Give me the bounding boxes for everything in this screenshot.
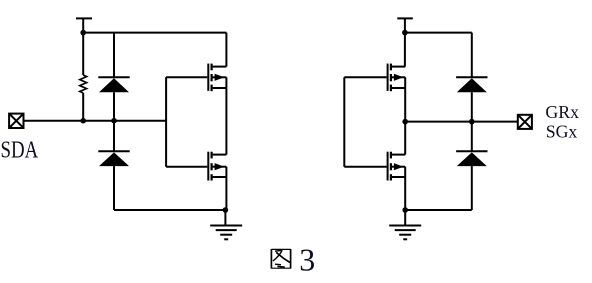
resistor R1 [80, 33, 87, 121]
wire rail to diode D3 [471, 33, 473, 78]
wire Q2 source to ground [225, 167, 227, 210]
junction dot node SDA [111, 118, 117, 124]
junction dot left top [80, 30, 86, 36]
svg-text:SGx: SGx [546, 122, 578, 142]
diode D4 [456, 151, 487, 210]
wire Q4 source to ground [404, 167, 406, 210]
pad SDA [9, 114, 23, 128]
wire rail to Q3 drain [404, 33, 406, 67]
power supply symbol left [76, 18, 92, 32]
wire top rail left [83, 32, 226, 34]
junction dot ground right [402, 207, 408, 213]
wire node row right [405, 121, 518, 123]
svg-text:SDA: SDA [1, 135, 39, 163]
transistor Q4 [388, 152, 406, 181]
junction dot ground left [223, 207, 229, 213]
wire node to diode D4 [471, 122, 473, 152]
svg-text:3: 3 [299, 241, 315, 277]
wire node SDA row [24, 120, 167, 122]
wire rail to diode D1 [113, 33, 115, 78]
junction dot resistor bottom [80, 118, 86, 124]
wire bottom right to ground [405, 209, 472, 211]
junction dot diode node right [469, 119, 475, 125]
wire Q3 source to Q4 drain [404, 77, 406, 154]
wire rail to Q1 drain [225, 33, 227, 67]
svg-text:GRx: GRx [545, 102, 579, 122]
diode D1 [98, 77, 129, 121]
wire gate bus right [343, 77, 345, 166]
wire Q1 source to Q2 drain [225, 77, 227, 154]
junction dot right top [402, 30, 408, 36]
ground left [210, 210, 242, 239]
transistor Q2 [208, 152, 226, 181]
power supply symbol right [397, 18, 413, 32]
wire gate bus left [165, 77, 167, 166]
diode D2 [98, 151, 129, 210]
pad GRx/SGx [518, 115, 532, 129]
wire bottom left to ground [114, 209, 225, 211]
transistor Q3 [388, 64, 406, 92]
diode D3 [456, 77, 487, 121]
wire gate lead Q3 [344, 76, 386, 78]
ground right [389, 210, 421, 239]
wire top rail right [405, 32, 472, 34]
wire gate lead Q1 [166, 76, 207, 78]
wire gate lead Q2 [166, 166, 207, 168]
junction dot node right [402, 119, 408, 125]
wire node to diode D2 [113, 121, 115, 152]
wire gate lead Q4 [344, 166, 386, 168]
transistor Q1 [208, 64, 226, 92]
caption figure character tu [271, 249, 290, 269]
